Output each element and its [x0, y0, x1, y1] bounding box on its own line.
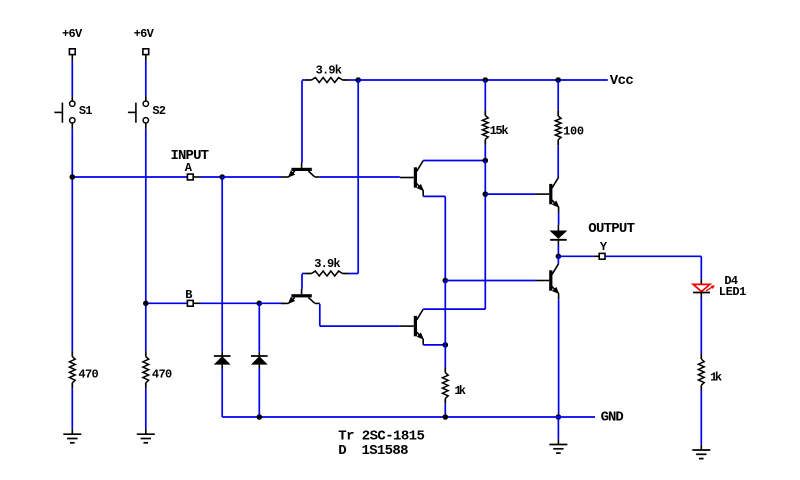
- wire: [71, 177, 73, 351]
- node junction: [556, 414, 562, 420]
- node junction: [556, 253, 562, 259]
- node junction: [483, 77, 489, 83]
- wire Vcc to 100: [557, 80, 559, 111]
- resistor 3.9k (Q2 base): [306, 257, 349, 276]
- node junction: [219, 174, 225, 180]
- svg-text:3.9k: 3.9k: [316, 63, 342, 77]
- wire 1k to ground: [700, 391, 702, 445]
- net Vcc rail: [358, 79, 608, 81]
- wire input B down to diode D2: [258, 303, 260, 352]
- svg-text:1k: 1k: [454, 384, 466, 398]
- wire 3.9k corner to Q1 base: [302, 79, 306, 81]
- svg-text:3.9k: 3.9k: [314, 257, 340, 271]
- wire Q6 base line: [445, 280, 535, 282]
- wire S1 to input line A: [71, 129, 73, 177]
- wire Q1 collector to Q3 base: [320, 176, 400, 178]
- LED D4 / LED1: [693, 274, 746, 299]
- transistor Q1 (2SC-1815) input A: [281, 163, 320, 178]
- switch S2: [128, 96, 166, 129]
- node junction: [143, 301, 149, 307]
- terminal +6V: [69, 49, 75, 55]
- diode D3: [550, 225, 567, 245]
- wire Q2 collector to Q4 base: [320, 325, 400, 327]
- node junction: [443, 278, 449, 284]
- wire down to LED D4: [700, 256, 702, 279]
- svg-text:Vcc: Vcc: [610, 73, 634, 89]
- wire Q4 collector right: [423, 308, 485, 310]
- svg-text:OUTPUT: OUTPUT: [588, 221, 635, 237]
- wire S2 down crossing line A to line B: [145, 129, 147, 303]
- svg-text:470: 470: [78, 368, 98, 382]
- node junction: [443, 414, 449, 420]
- svg-text:GND: GND: [601, 409, 624, 425]
- lead: [594, 255, 600, 257]
- wire Q3 emitter right: [423, 195, 445, 197]
- node junction: [257, 414, 263, 420]
- ground: [549, 439, 567, 453]
- svg-text:+6V: +6V: [62, 27, 83, 41]
- terminal Y: [599, 253, 605, 259]
- svg-text:A: A: [185, 161, 193, 175]
- wire 15k to Q3 collector node: [484, 145, 486, 161]
- diode D2: [251, 352, 268, 369]
- svg-text:LED1: LED1: [719, 285, 747, 299]
- wire Vcc down to 3.9k (Q2 base), crossing line A: [357, 80, 359, 274]
- wire output node to Q6 collector: [557, 256, 559, 263]
- wire: [145, 388, 147, 429]
- resistor 3.9k (Q1 base): [306, 63, 349, 82]
- svg-text:S2: S2: [152, 104, 166, 118]
- lead: [193, 176, 200, 178]
- transistor Q4 (2SC-1815): [400, 309, 423, 345]
- node junction: [355, 77, 361, 83]
- transistor Q5 (2SC-1815): [535, 177, 558, 213]
- node junction: [555, 77, 561, 83]
- wire 1k to GND rail: [444, 404, 446, 417]
- lead: [145, 55, 147, 62]
- terminal B: [187, 300, 193, 306]
- wire output node to terminal Y: [558, 255, 593, 257]
- wire line B crossing D1 column: [201, 302, 260, 304]
- terminal A: [187, 174, 193, 180]
- wire Q2 collector down: [319, 304, 321, 326]
- svg-text:470: 470: [152, 368, 172, 382]
- resistor 470: [143, 351, 172, 388]
- lead: [193, 302, 200, 304]
- resistor 1k (Q6 base bleed): [442, 367, 466, 404]
- wire input A down to diode D1: [221, 177, 223, 352]
- node junction: [70, 174, 76, 180]
- wire Q5 emitter to diode D3: [558, 213, 560, 225]
- svg-text:+6V: +6V: [134, 27, 155, 41]
- lead: [71, 55, 73, 62]
- wire Q6 emitter to GND rail: [558, 299, 560, 417]
- node junction: [257, 301, 263, 307]
- svg-text:S1: S1: [79, 104, 93, 118]
- wire 3.9k corner to Q2 base: [302, 273, 306, 275]
- wire: [145, 303, 147, 351]
- wire Q4 collector up to 15k node, crossing Q6 base line: [484, 194, 486, 309]
- wire down to Q5 base node: [484, 161, 486, 195]
- svg-text:15k: 15k: [490, 124, 509, 138]
- wire: [71, 388, 73, 429]
- wire line A left: [75, 176, 187, 178]
- wire common emitter down: [444, 281, 446, 368]
- wire D2 to GND rail: [258, 369, 260, 417]
- switch S1: [54, 96, 92, 129]
- svg-text:Y: Y: [600, 240, 608, 254]
- wire 100 to Q5 collector: [557, 145, 559, 177]
- wire line B to Q2 emitter: [259, 302, 284, 304]
- ground: [692, 445, 710, 459]
- resistor 470: [69, 351, 98, 388]
- wire D3 to output node: [557, 245, 559, 256]
- terminal +6V: [143, 49, 149, 55]
- wire: [71, 61, 73, 96]
- wire 3.9k to Vcc vertical: [349, 273, 359, 275]
- transistor Q3 (2SC-1815): [400, 161, 423, 197]
- wire Q4 emitter right: [423, 344, 445, 346]
- ground: [63, 429, 81, 443]
- resistor 100: [555, 111, 584, 146]
- wire: [145, 61, 147, 96]
- svg-text:D 1S1588: D 1S1588: [338, 443, 408, 459]
- node junction: [443, 342, 449, 348]
- wire Q3 collector to 15k node: [423, 160, 485, 162]
- diode D1: [214, 352, 231, 369]
- transistor Q6 (2SC-1815): [535, 264, 558, 300]
- node junction: [483, 158, 489, 164]
- wire to ground symbol: [557, 417, 559, 439]
- net GND rail: [221, 368, 223, 370]
- ground: [137, 429, 155, 443]
- wire Q5 base line: [485, 193, 535, 195]
- resistor 1k (LED): [698, 354, 722, 391]
- transistor Q2 (2SC-1815) input B: [281, 289, 320, 304]
- wire Q3 emitter down to common emitter node: [444, 196, 446, 280]
- wire line B left: [148, 302, 187, 304]
- wire Vcc to 15k: [484, 80, 486, 110]
- svg-text:1k: 1k: [710, 370, 722, 384]
- wire terminal Y to LED branch: [605, 255, 701, 257]
- wire LED to 1k: [700, 298, 702, 354]
- wire line A to junction: [201, 176, 223, 178]
- svg-text:100: 100: [563, 125, 584, 139]
- resistor 15k: [482, 110, 508, 145]
- wire 3.9k to Vcc node: [349, 79, 359, 81]
- wire D1 to GND rail: [221, 369, 223, 417]
- node junction: [483, 191, 489, 197]
- wire line A to Q1 emitter: [222, 176, 281, 178]
- svg-text:Tr 2SC-1815: Tr 2SC-1815: [338, 429, 425, 445]
